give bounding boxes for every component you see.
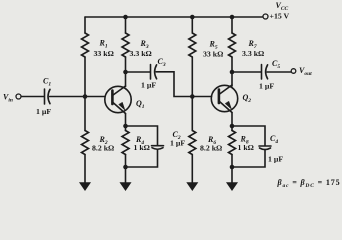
wire R7 branch top	[231, 17, 233, 33]
wire C2 bottom	[126, 149, 158, 167]
transistor Q1	[105, 86, 131, 112]
capacitor C3	[150, 65, 152, 80]
wire R3 bottom to collector node	[125, 57, 127, 87]
node Q2 base	[190, 94, 195, 99]
svg-text:33 kΩ: 33 kΩ	[203, 50, 223, 59]
wire Vcc top rail	[85, 16, 265, 18]
wire Q2 emitter node to R8	[231, 126, 233, 131]
node rail-R5	[190, 15, 195, 20]
wire Q2 emitter down	[231, 113, 233, 127]
svg-text:+15 V: +15 V	[270, 12, 290, 21]
resistor R4	[122, 131, 129, 155]
wire R2 to ground	[84, 155, 86, 183]
wire collector node to C3	[126, 71, 151, 73]
svg-text:1 µF: 1 µF	[36, 107, 51, 116]
resistor R3	[122, 33, 129, 57]
node C4 bottom	[230, 165, 235, 170]
node Q1 emitter	[123, 124, 128, 129]
svg-text:C5: C5	[272, 59, 280, 70]
node rail-R7	[230, 15, 235, 20]
svg-text:3.3 kΩ: 3.3 kΩ	[130, 49, 152, 58]
wire C1 to Q1 base	[50, 96, 106, 98]
node rail-R3	[123, 15, 128, 20]
resistor R2	[82, 131, 89, 155]
wire Q1 emitter down	[125, 114, 127, 127]
ground below R4	[120, 182, 132, 191]
ground below R8	[226, 182, 238, 191]
node Q1 base	[83, 94, 88, 99]
wire C4 branch top	[232, 126, 265, 146]
capacitor C5	[261, 65, 263, 80]
resistor R8	[229, 131, 236, 155]
svg-text:C4: C4	[270, 134, 278, 145]
wire R4 to ground node	[125, 155, 127, 183]
svg-text:βac = βDC = 175: βac = βDC = 175	[277, 178, 341, 189]
wire R8 to ground node	[231, 155, 233, 183]
wire R7 bottom to Q2 collector node	[231, 57, 233, 86]
terminal Vcc	[263, 14, 268, 19]
svg-text:Vout: Vout	[299, 66, 312, 77]
wire R6 to ground	[191, 155, 193, 183]
terminal Vout	[291, 69, 296, 74]
ground below R2	[79, 182, 91, 191]
wire R5 bottom to Q2 base node	[191, 57, 193, 97]
wire R1 bottom to base node	[84, 57, 86, 97]
node C2 bottom	[123, 165, 128, 170]
wire R1 branch top	[84, 17, 86, 33]
svg-text:1 µF: 1 µF	[259, 82, 274, 91]
capacitor C2	[152, 145, 164, 147]
svg-text:VCC: VCC	[276, 1, 289, 12]
svg-text:Q1: Q1	[136, 99, 145, 110]
resistor R5	[189, 33, 196, 57]
wire C4 bottom	[232, 150, 265, 167]
transistor Q2	[211, 85, 237, 111]
wire input terminal to C1	[21, 96, 44, 98]
node Q2 collector	[230, 70, 235, 75]
wire Q2 base node to R6	[191, 97, 193, 131]
svg-text:Q2: Q2	[243, 93, 252, 104]
resistor R6	[189, 131, 196, 155]
resistor R1	[82, 33, 89, 57]
terminal Vin	[16, 94, 21, 99]
svg-text:33 kΩ: 33 kΩ	[94, 49, 114, 58]
wire C3 to Q2 base	[156, 72, 212, 97]
svg-text:1 kΩ: 1 kΩ	[134, 143, 150, 152]
svg-text:C1: C1	[43, 77, 51, 88]
wire C2 branch top	[126, 126, 158, 145]
wire base node to R2	[84, 97, 86, 131]
svg-text:R1: R1	[99, 39, 108, 50]
svg-text:Vin: Vin	[3, 93, 13, 104]
ground below R6	[186, 182, 198, 191]
svg-text:8.2 kΩ: 8.2 kΩ	[200, 144, 222, 153]
capacitor C4	[259, 145, 271, 147]
node Q2 emitter	[230, 124, 235, 129]
wire R5 branch top	[191, 17, 193, 33]
wire R3 branch top	[125, 17, 127, 33]
resistor R7	[229, 33, 236, 57]
svg-text:8.2 kΩ: 8.2 kΩ	[92, 144, 114, 153]
svg-text:1 µF: 1 µF	[141, 81, 156, 90]
svg-text:C3: C3	[158, 57, 166, 68]
node Q1 collector	[123, 70, 128, 75]
wire C5 to output terminal	[267, 71, 291, 73]
svg-text:3.3 kΩ: 3.3 kΩ	[242, 49, 264, 58]
svg-text:1 kΩ: 1 kΩ	[238, 143, 254, 152]
svg-text:1 µF: 1 µF	[268, 155, 283, 164]
svg-text:1 µF: 1 µF	[170, 139, 185, 148]
wire emitter node to R4	[125, 126, 127, 131]
capacitor C1	[44, 89, 46, 104]
wire Q2 collector node to C5	[232, 71, 261, 73]
